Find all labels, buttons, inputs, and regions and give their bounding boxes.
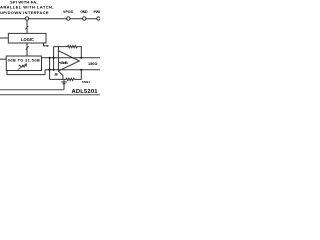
svg-text:GND: GND (80, 10, 88, 14)
svg-text:+20dB: +20dB (59, 60, 68, 65)
svg-text:150Ω: 150Ω (88, 62, 98, 66)
svg-text:VPOS: VPOS (63, 10, 74, 14)
svg-text:PWU: PWU (94, 10, 101, 14)
svg-text:LOGIC: LOGIC (21, 37, 34, 42)
svg-text:UP/DOWN INTERFACE: UP/DOWN INTERFACE (0, 10, 49, 15)
svg-text:ADL5201: ADL5201 (72, 89, 99, 95)
svg-text:0dB TO 31.5dB: 0dB TO 31.5dB (8, 59, 40, 63)
svg-text:07929-0: 07929-0 (82, 81, 91, 84)
